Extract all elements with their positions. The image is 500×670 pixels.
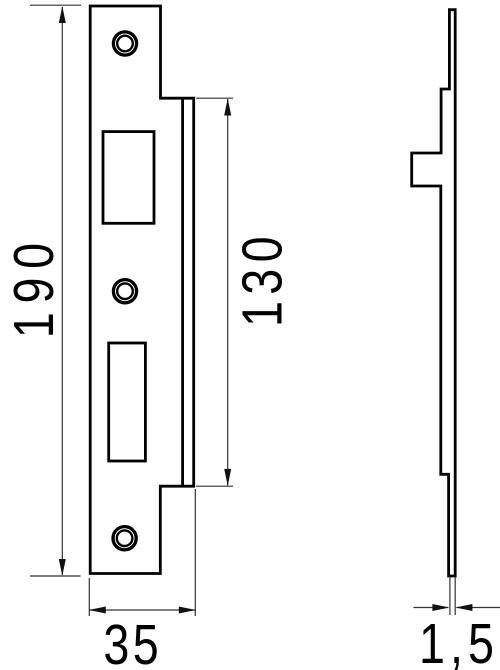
dim 1,5 extension line left	[449, 577, 451, 615]
dim 1,5 arrow right pointing left	[455, 604, 472, 611]
dim 190 arrow down	[59, 559, 66, 576]
svg-text:35: 35	[103, 614, 162, 670]
screw hole top	[113, 32, 136, 55]
dim 130 line	[227, 99, 229, 485]
dim 190 arrow up	[59, 6, 66, 23]
dim 130 extension line bottom	[196, 485, 233, 487]
deadbolt cutout rectangle	[109, 343, 146, 461]
dim 35 line	[89, 609, 195, 611]
svg-text:130: 130	[231, 230, 294, 327]
lip bend line	[181, 97, 184, 487]
latch cutout rectangle	[103, 132, 154, 224]
dim 190 extension line top	[30, 4, 81, 6]
dim 35 extension line right	[194, 489, 196, 616]
dim 1,5 leader left	[414, 607, 449, 609]
dim 130 extension line top	[196, 97, 233, 99]
screw hole bottom	[113, 527, 136, 550]
dim 35 arrow right	[179, 607, 196, 614]
front view plate outline	[90, 6, 194, 574]
dim 130 arrow up	[224, 99, 231, 116]
svg-text:1,5: 1,5	[419, 613, 499, 670]
dim 35 arrow left	[89, 607, 106, 614]
dim 35 extension line left	[88, 578, 90, 616]
svg-text:190: 190	[3, 234, 66, 338]
dim 1,5 extension line right	[454, 577, 456, 615]
dim 1,5 leader right	[457, 607, 500, 609]
dim 130 arrow down	[224, 469, 231, 486]
side view profile outline	[412, 10, 456, 576]
dim 190 line	[61, 7, 63, 575]
dim 1,5 arrow left pointing right	[432, 604, 449, 611]
screw hole middle	[113, 280, 136, 303]
dim 190 extension line bottom	[30, 575, 81, 577]
